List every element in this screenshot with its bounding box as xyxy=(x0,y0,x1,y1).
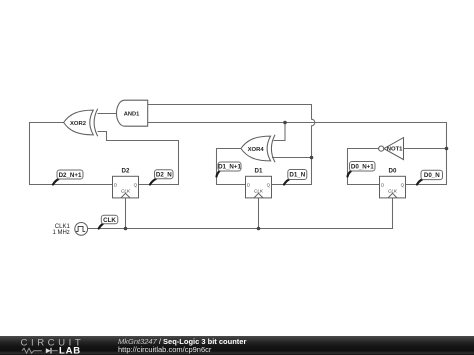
svg-text:CLK: CLK xyxy=(388,188,398,193)
svg-text:D1_N: D1_N xyxy=(289,172,305,179)
svg-text:D0: D0 xyxy=(389,168,397,175)
svg-text:CLK: CLK xyxy=(103,217,116,224)
svg-text:D0_N+1: D0_N+1 xyxy=(351,163,374,170)
svg-text:AND1: AND1 xyxy=(124,112,140,118)
svg-text:D2: D2 xyxy=(122,168,130,175)
svg-text:XOR4: XOR4 xyxy=(248,147,265,153)
svg-text:NOT1: NOT1 xyxy=(387,147,403,153)
svg-text:D0_N: D0_N xyxy=(424,172,440,179)
svg-text:XOR2: XOR2 xyxy=(70,121,87,127)
svg-text:CLK: CLK xyxy=(121,188,131,193)
svg-text:D1_N+1: D1_N+1 xyxy=(218,164,241,171)
svg-text:D2_N+1: D2_N+1 xyxy=(59,172,82,179)
svg-text:D2_N: D2_N xyxy=(156,172,172,179)
svg-text:CLK: CLK xyxy=(254,188,264,193)
svg-text:Q: Q xyxy=(401,182,405,187)
svg-text:Q: Q xyxy=(134,182,138,187)
svg-text:LAB: LAB xyxy=(59,346,81,355)
svg-text:Q: Q xyxy=(267,182,271,187)
svg-text:D1: D1 xyxy=(255,168,263,175)
svg-text:1 MHz: 1 MHz xyxy=(52,230,69,236)
